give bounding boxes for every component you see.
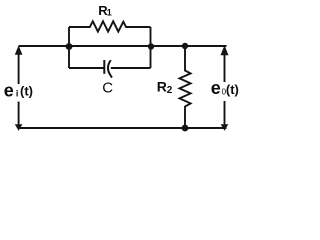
voltage marker e_i arrow up [15, 45, 23, 55]
node dot R2 top [182, 43, 188, 49]
svg-text:C: C [102, 79, 113, 96]
resistor R1 [69, 21, 151, 31]
svg-text:1: 1 [107, 8, 112, 18]
voltage marker e_0 arrow down [221, 124, 229, 130]
wire loop left vertical [68, 27, 70, 68]
wire e_0 stem lower [224, 101, 226, 125]
wire capacitor branch left [69, 67, 104, 69]
voltage marker e_i arrow down [15, 124, 23, 130]
svg-text:e: e [211, 78, 221, 98]
node dot left of loop [66, 43, 73, 50]
svg-text:(t): (t) [20, 84, 33, 99]
svg-text:i: i [16, 89, 19, 99]
wire top main [19, 45, 227, 47]
capacitor C right plate (curved) [108, 60, 112, 77]
resistor R2 [180, 46, 191, 128]
svg-text:e: e [4, 81, 14, 101]
svg-text:(t): (t) [226, 82, 239, 97]
wire capacitor branch right [111, 67, 151, 69]
node dot R2 bottom [182, 125, 189, 132]
wire loop right vertical [150, 27, 152, 68]
wire e_i stem upper [18, 54, 20, 84]
voltage marker e_0 arrow up [221, 45, 229, 55]
wire e_i stem lower [18, 102, 20, 126]
wire e_0 stem upper [224, 54, 226, 82]
svg-text:2: 2 [167, 85, 173, 96]
node dot right of loop [148, 43, 154, 49]
svg-text:R: R [157, 78, 167, 94]
wire bottom main [19, 127, 227, 129]
capacitor C left plate [103, 60, 105, 74]
